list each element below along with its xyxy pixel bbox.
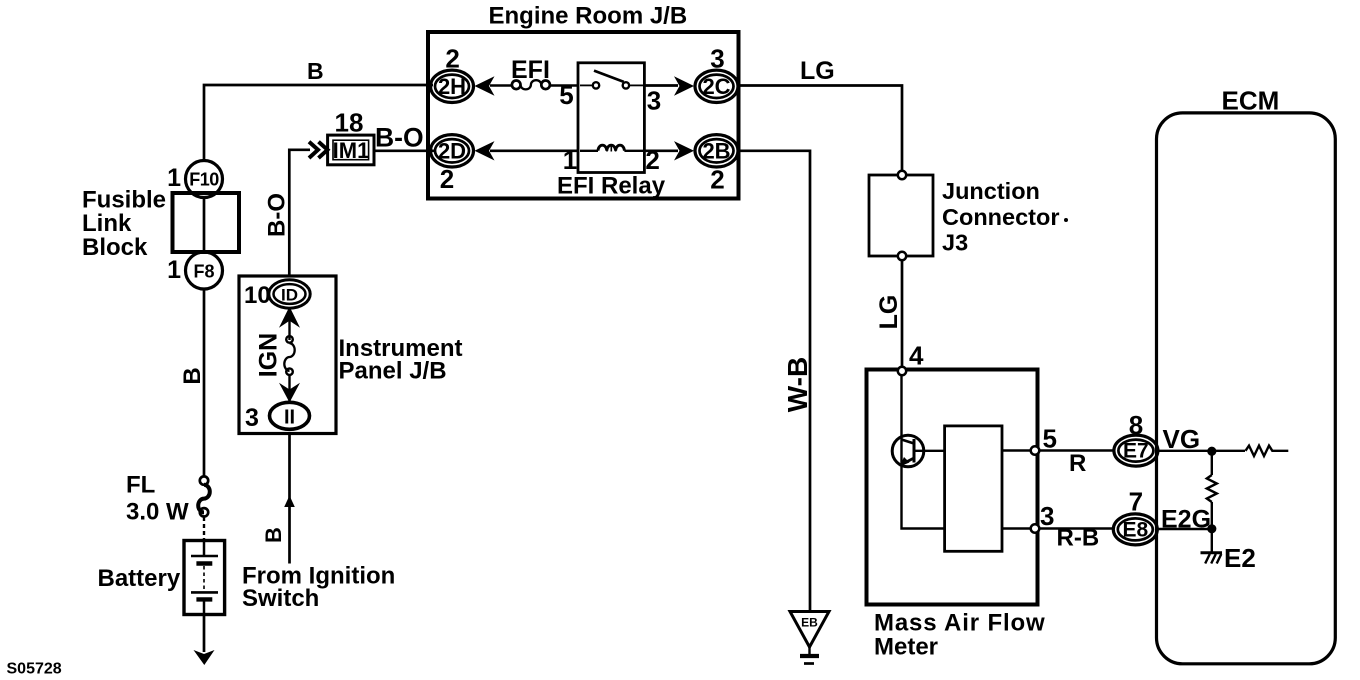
wire LG from 2C to junction connector bbox=[739, 86, 903, 172]
svg-text:J3: J3 bbox=[942, 230, 968, 256]
svg-text:B: B bbox=[261, 527, 286, 543]
wire bbox=[490, 84, 512, 86]
svg-text:E8: E8 bbox=[1122, 518, 1148, 541]
wire R-B to E8 bbox=[1040, 527, 1115, 529]
svg-text:FL: FL bbox=[126, 472, 155, 499]
svg-text:10: 10 bbox=[244, 282, 271, 309]
svg-text:B: B bbox=[179, 367, 206, 384]
svg-text:Junction: Junction bbox=[942, 178, 1040, 204]
resistor (vertical) bbox=[1211, 451, 1213, 475]
svg-text:Link: Link bbox=[82, 210, 132, 237]
svg-text:B-O: B-O bbox=[264, 193, 291, 237]
svg-text:1: 1 bbox=[167, 164, 181, 192]
svg-text:2D: 2D bbox=[438, 139, 466, 164]
svg-text:ECM: ECM bbox=[1222, 86, 1280, 116]
svg-text:3.0 W: 3.0 W bbox=[126, 499, 189, 526]
fuse IGN bbox=[286, 336, 293, 343]
Mass Air Flow Meter box bbox=[867, 370, 1038, 605]
svg-text:F10: F10 bbox=[189, 170, 219, 190]
svg-text:3: 3 bbox=[647, 86, 661, 116]
svg-text:3: 3 bbox=[245, 404, 259, 432]
wire LG junction to MAF bbox=[901, 260, 904, 367]
resistor (horizontal) bbox=[1246, 446, 1289, 456]
svg-text:S05728: S05728 bbox=[7, 661, 62, 678]
svg-text:Battery: Battery bbox=[98, 565, 181, 592]
wire B down to FL bbox=[203, 289, 206, 477]
junction connector J3 bbox=[869, 175, 933, 256]
svg-text:R: R bbox=[1069, 450, 1086, 477]
wire R to E7 bbox=[1040, 449, 1115, 451]
arrowhead up bbox=[284, 496, 295, 508]
svg-text:E7: E7 bbox=[1123, 440, 1149, 463]
fusible link FL 3.0 W bbox=[200, 476, 208, 484]
wire bbox=[550, 84, 578, 86]
svg-text:18: 18 bbox=[335, 108, 364, 138]
battery BAT bbox=[184, 541, 225, 615]
wire B-O from Instrument Panel J/B up to IM1 bbox=[289, 150, 310, 276]
arrows into IM1 bbox=[309, 142, 328, 158]
transistor (air flow sensor) bbox=[892, 435, 924, 467]
svg-text:ID: ID bbox=[281, 286, 298, 305]
svg-text:R-B: R-B bbox=[1057, 525, 1100, 552]
svg-text:LG: LG bbox=[800, 57, 835, 85]
connector 2D pin 2 bbox=[431, 135, 474, 167]
dashed wire to battery bbox=[203, 517, 205, 540]
svg-text:VG: VG bbox=[1163, 424, 1201, 454]
arrow up bbox=[279, 307, 300, 328]
svg-text:Switch: Switch bbox=[242, 585, 319, 612]
wire W-B from 2B down to EB ground bbox=[739, 151, 811, 611]
fuse F8 bbox=[186, 252, 223, 289]
wire inside MAF bbox=[902, 375, 945, 529]
svg-text:2: 2 bbox=[440, 164, 454, 194]
wire 2D row bbox=[490, 149, 578, 152]
svg-text:LG: LG bbox=[875, 295, 903, 330]
svg-text:4: 4 bbox=[909, 341, 924, 371]
svg-text:2H: 2H bbox=[438, 74, 466, 99]
wires to MAF terminals bbox=[1002, 449, 1031, 451]
connector IM1 bbox=[328, 135, 374, 165]
arrow into 2H bbox=[475, 76, 495, 95]
svg-text:5: 5 bbox=[559, 80, 573, 110]
svg-text:B: B bbox=[307, 58, 324, 84]
Instrument Panel J/B box bbox=[239, 276, 336, 434]
svg-text:E2: E2 bbox=[1224, 543, 1256, 573]
wire B from battery branch to Engine Room J/B bbox=[204, 85, 433, 160]
svg-text:Engine Room J/B: Engine Room J/B bbox=[489, 3, 688, 30]
wire relay to 2C bbox=[644, 84, 678, 87]
svg-text:Meter: Meter bbox=[874, 634, 938, 661]
ECM box bbox=[1157, 113, 1336, 664]
svg-text:IM1: IM1 bbox=[333, 138, 370, 163]
svg-text:Panel J/B: Panel J/B bbox=[339, 358, 447, 385]
svg-text:Connector: Connector bbox=[942, 204, 1060, 230]
MAF inner element box bbox=[945, 426, 1002, 551]
Engine Room J/B box bbox=[428, 32, 739, 199]
svg-text:W-B: W-B bbox=[782, 357, 813, 412]
svg-text:Block: Block bbox=[82, 234, 148, 261]
EFI relay box bbox=[578, 63, 644, 173]
svg-text:2B: 2B bbox=[702, 139, 730, 164]
relay switch contacts bbox=[580, 84, 593, 86]
svg-text:3: 3 bbox=[1040, 501, 1054, 531]
wire battery to ground bbox=[203, 615, 206, 653]
arrow into 2B bbox=[674, 141, 694, 160]
svg-text:1: 1 bbox=[167, 256, 181, 284]
svg-text:II: II bbox=[284, 407, 295, 429]
wire IM1 to 2D bbox=[374, 149, 436, 152]
Fusible Link Block box bbox=[173, 193, 240, 252]
connector 2B pin 2 bbox=[695, 135, 738, 167]
svg-text:7: 7 bbox=[1129, 486, 1143, 516]
svg-text:2C: 2C bbox=[702, 74, 730, 99]
node VG junction bbox=[1207, 447, 1216, 456]
wire relay to 2B bbox=[644, 149, 678, 152]
svg-text:2: 2 bbox=[710, 165, 724, 195]
svg-text:IGN: IGN bbox=[255, 333, 283, 377]
ground EB bbox=[790, 612, 829, 648]
fuse F10 bbox=[186, 161, 223, 198]
wire inside instrument panel bbox=[288, 308, 290, 340]
arrow into 2C bbox=[674, 76, 694, 95]
ground (battery) bbox=[194, 650, 215, 665]
svg-text:F8: F8 bbox=[193, 262, 214, 282]
arrow into 2D bbox=[475, 141, 495, 160]
svg-text:EB: EB bbox=[801, 616, 818, 630]
svg-text:EFI Relay: EFI Relay bbox=[557, 173, 666, 200]
ground E2 bbox=[1211, 529, 1213, 553]
relay coil bbox=[580, 150, 598, 152]
wire B from ignition switch bbox=[288, 434, 291, 564]
svg-text:Mass Air Flow: Mass Air Flow bbox=[874, 610, 1046, 637]
wire through fusible link block bbox=[203, 198, 206, 252]
svg-text:5: 5 bbox=[1043, 424, 1057, 454]
svg-text:B-O: B-O bbox=[375, 123, 424, 153]
wire + arrow down bbox=[288, 375, 290, 402]
